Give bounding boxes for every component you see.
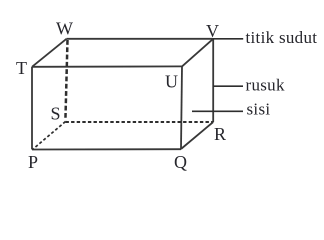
svg-text:U: U: [165, 72, 178, 92]
wire edge TW (left top depth): [32, 39, 67, 67]
svg-text:T: T: [16, 58, 27, 78]
wire edge UQ (front right vertical): [181, 66, 182, 149]
wire edge TP (front left vertical): [31, 67, 33, 150]
svg-text:R: R: [214, 124, 226, 144]
wire hidden edge SP (dashed depth): [33, 122, 66, 150]
wire hidden edge WS (dashed vertical): [65, 40, 67, 120]
wire edge TU (top front): [32, 65, 182, 67]
wire edge UV (right top depth): [182, 39, 213, 67]
svg-text:sisi: sisi: [247, 100, 271, 119]
svg-text:titik sudut: titik sudut: [246, 28, 318, 47]
svg-text:V: V: [206, 21, 219, 41]
svg-text:S: S: [51, 104, 61, 124]
wire callout rusuk: [213, 85, 243, 87]
wire callout sisi: [192, 110, 243, 112]
wire edge VR (back right vertical): [212, 39, 214, 122]
wire callout titik sudut: [213, 38, 243, 40]
svg-text:P: P: [28, 152, 38, 172]
svg-text:W: W: [56, 19, 73, 39]
wire edge QR (right bottom depth): [181, 122, 213, 149]
svg-text:rusuk: rusuk: [246, 75, 285, 94]
wire edge PQ (bottom front): [32, 148, 181, 150]
svg-text:Q: Q: [174, 152, 187, 172]
wire edge WV (top back): [67, 38, 214, 40]
wire hidden edge SR (dashed bottom back): [66, 121, 213, 123]
